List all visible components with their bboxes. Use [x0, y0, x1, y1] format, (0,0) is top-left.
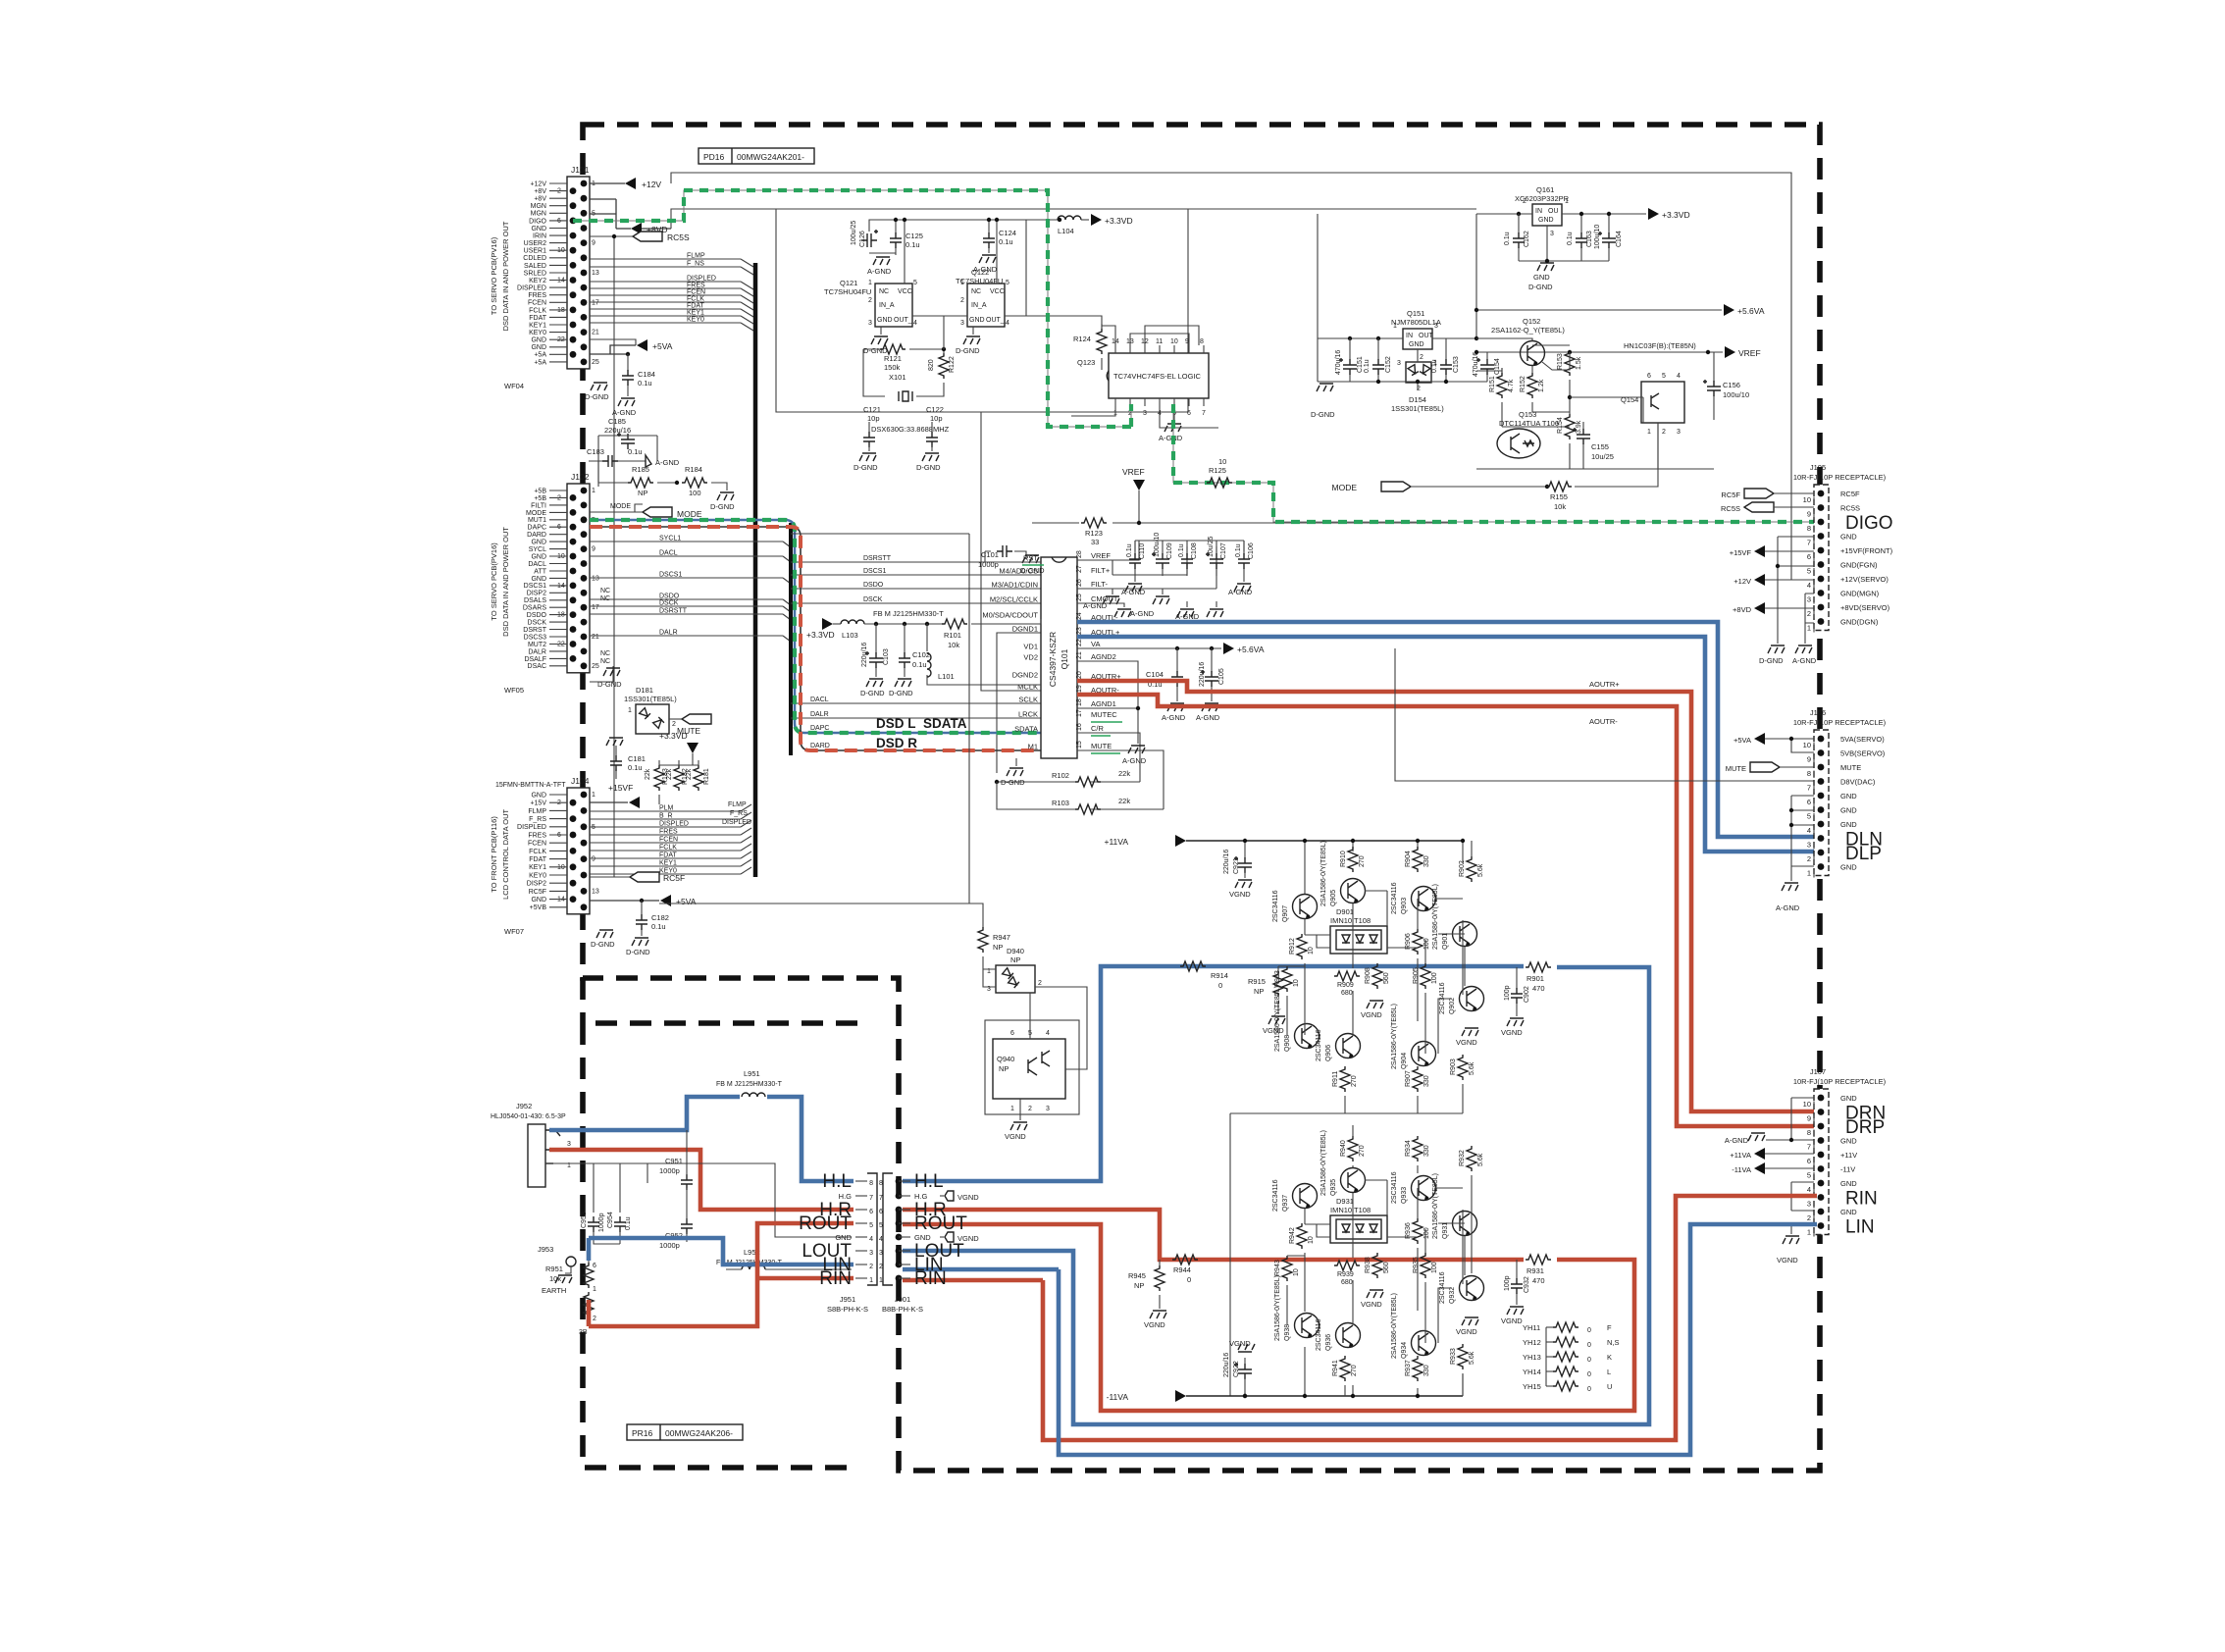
- svg-text:2SC34116: 2SC34116: [1316, 1318, 1322, 1351]
- svg-text:4: 4: [869, 1236, 873, 1243]
- svg-text:25: 25: [592, 663, 599, 670]
- svg-text:GND: GND: [531, 553, 546, 560]
- svg-text:+5VB: +5VB: [530, 904, 547, 911]
- svg-text:1: 1: [1807, 1228, 1811, 1237]
- svg-text:D-GND: D-GND: [1001, 778, 1025, 787]
- svg-text:C181: C181: [628, 754, 646, 763]
- svg-text:Q153: Q153: [1519, 410, 1536, 419]
- svg-text:13: 13: [592, 575, 599, 582]
- svg-text:FRES: FRES: [528, 292, 546, 299]
- svg-text:00MWG24AK206-: 00MWG24AK206-: [665, 1428, 733, 1438]
- svg-text:5: 5: [1807, 1171, 1811, 1180]
- svg-text:FB M J2125HM330-T: FB M J2125HM330-T: [873, 609, 944, 618]
- svg-text:C151: C151: [1357, 356, 1364, 373]
- svg-text:0.1u: 0.1u: [638, 379, 652, 387]
- wire H.R red from jack: [549, 1150, 854, 1210]
- svg-text:10p: 10p: [930, 414, 943, 423]
- svg-text:DSRSTT: DSRSTT: [863, 555, 892, 562]
- svg-text:10: 10: [1803, 495, 1811, 504]
- svg-text:10R-FJ(10P RECEPTACLE): 10R-FJ(10P RECEPTACLE): [1793, 473, 1887, 482]
- svg-text:3B: 3B: [579, 1329, 588, 1336]
- inverter Q121 TC7SHU04FU: [824, 279, 917, 327]
- capacitor C124 0.1u: [973, 218, 1016, 274]
- svg-text:J107: J107: [1810, 1067, 1826, 1076]
- capacitor C108 0.1u: [1178, 541, 1198, 576]
- wire H.L/LOUT blue loop: [903, 966, 1649, 1424]
- svg-text:FDAT: FDAT: [659, 852, 677, 859]
- resistor R155 10k: [1546, 482, 1572, 511]
- svg-text:2: 2: [1038, 980, 1042, 987]
- svg-text:R122: R122: [949, 356, 956, 373]
- svg-text:270: 270: [1351, 1365, 1358, 1376]
- svg-text:D-GND: D-GND: [626, 948, 650, 956]
- svg-text:KEY0: KEY0: [529, 872, 546, 879]
- svg-text:Q906: Q906: [1325, 1045, 1332, 1061]
- capacitor C184: [612, 354, 655, 417]
- svg-text:560: 560: [1383, 972, 1390, 984]
- svg-text:DGND1: DGND1: [1012, 625, 1038, 634]
- svg-text:IN_A: IN_A: [971, 302, 987, 309]
- svg-text:0: 0: [1587, 1386, 1591, 1393]
- svg-text:-11V: -11V: [1840, 1165, 1855, 1174]
- ferrite L951: [716, 1069, 783, 1097]
- svg-text:KEY1: KEY1: [687, 310, 704, 317]
- svg-text:R125: R125: [1209, 466, 1226, 475]
- svg-text:NC: NC: [600, 658, 610, 665]
- svg-text:GND: GND: [531, 226, 546, 232]
- svg-text:C102: C102: [912, 650, 930, 659]
- wire H.R/ROUT red loop: [903, 1210, 1634, 1411]
- svg-text:B8B-PH-K-S: B8B-PH-K-S: [882, 1305, 923, 1314]
- svg-text:+5.6VA: +5.6VA: [1737, 306, 1765, 316]
- svg-text:DISPLED: DISPLED: [722, 819, 751, 826]
- svg-text:F_NS: F_NS: [687, 261, 704, 268]
- svg-text:0.1u: 0.1u: [1126, 543, 1133, 557]
- svg-text:Q902: Q902: [1449, 998, 1456, 1014]
- svg-text:AOUTR+: AOUTR+: [1589, 680, 1620, 689]
- AGND2/AGND1 wires: [1077, 661, 1138, 744]
- svg-text:+8V: +8V: [534, 196, 546, 203]
- svg-text:0.1u: 0.1u: [625, 1216, 632, 1230]
- svg-text:M2/SCL/CCLK: M2/SCL/CCLK: [990, 595, 1038, 604]
- regulator Q151 NJM7805DL1A: [1391, 309, 1441, 361]
- svg-text:6: 6: [869, 1209, 873, 1215]
- svg-text:M0/SDA/CDOUT: M0/SDA/CDOUT: [982, 611, 1038, 620]
- svg-text:WF04: WF04: [504, 382, 524, 390]
- svg-text:MUT1: MUT1: [528, 517, 546, 524]
- svg-text:FCLK: FCLK: [659, 845, 677, 852]
- svg-text:5.6k: 5.6k: [1477, 1153, 1484, 1166]
- resistor R153 1.5k: [1557, 350, 1582, 397]
- wire AOUTL- blue: [1077, 622, 1817, 837]
- svg-text:DSRSTT: DSRSTT: [659, 608, 688, 615]
- capacitor C154 470u/16: [1473, 352, 1501, 382]
- svg-text:GND: GND: [1533, 273, 1550, 282]
- svg-text:F_RS: F_RS: [730, 810, 748, 817]
- svg-text:GND: GND: [1840, 792, 1857, 800]
- svg-text:MGN: MGN: [531, 211, 546, 218]
- svg-text:5.6k: 5.6k: [1469, 1351, 1475, 1365]
- svg-text:Q907: Q907: [1282, 905, 1289, 922]
- svg-text:C922: C922: [1233, 1361, 1240, 1377]
- MODE flag right section: [1332, 423, 1659, 492]
- svg-text:0: 0: [1187, 1275, 1191, 1284]
- svg-text:100: 100: [1431, 972, 1438, 984]
- connector J105: [1793, 463, 1893, 633]
- +12V power arrow: [590, 178, 661, 189]
- capacitor C181 0.1u: [606, 738, 646, 779]
- volume wires blue: [589, 1238, 854, 1265]
- svg-text:J106: J106: [1810, 708, 1826, 717]
- svg-text:VGND: VGND: [1005, 1132, 1026, 1141]
- svg-text:3: 3: [1397, 360, 1401, 367]
- svg-text:+15VF: +15VF: [1730, 548, 1752, 557]
- svg-text:10: 10: [1308, 1236, 1315, 1244]
- svg-text:4: 4: [1677, 373, 1681, 380]
- svg-text:DAPC: DAPC: [810, 725, 829, 732]
- svg-text:RC5F: RC5F: [1721, 490, 1740, 499]
- resistor R908 560: [1365, 963, 1390, 989]
- svg-text:4: 4: [1807, 1185, 1811, 1194]
- svg-text:YH12: YH12: [1523, 1338, 1541, 1347]
- svg-text:FCEN: FCEN: [528, 841, 546, 848]
- svg-text:DISPLED: DISPLED: [687, 276, 716, 283]
- svg-text:MCLK: MCLK: [1017, 683, 1038, 692]
- svg-text:D940: D940: [1007, 947, 1024, 955]
- svg-text:C124: C124: [999, 229, 1016, 237]
- J102 signal wires: [590, 536, 791, 666]
- svg-text:4: 4: [1807, 581, 1811, 590]
- svg-text:100u/25: 100u/25: [851, 221, 857, 245]
- resistor R912 10: [1289, 934, 1315, 959]
- svg-text:NC: NC: [600, 595, 610, 602]
- svg-text:2: 2: [1662, 429, 1666, 436]
- svg-text:WF05: WF05: [504, 686, 524, 695]
- resistor R933 5.6k: [1450, 1344, 1475, 1369]
- svg-text:1000p: 1000p: [598, 1213, 605, 1232]
- svg-text:LIN: LIN: [1845, 1217, 1875, 1238]
- svg-text:GND: GND: [531, 897, 546, 903]
- wire LIN blue: [1059, 1224, 1817, 1455]
- svg-text:C125: C125: [906, 232, 923, 240]
- capacitor C953 1000p: [581, 1212, 620, 1244]
- wire DAPC (blue+green dashed SDATA): [590, 520, 1041, 733]
- svg-text:L103: L103: [842, 631, 858, 640]
- resistor R941 270: [1332, 1356, 1358, 1381]
- svg-text:3: 3: [1046, 1106, 1050, 1112]
- svg-text:NC: NC: [600, 650, 610, 657]
- resistor R940 270: [1340, 1136, 1366, 1162]
- svg-text:GND: GND: [531, 576, 546, 583]
- DAC IC Q101 CS4397-KSZR: [1041, 557, 1077, 758]
- svg-text:9: 9: [1807, 755, 1811, 764]
- resistor R937 330: [1405, 1356, 1430, 1381]
- svg-text:LCD CONTROL DATA OUT: LCD CONTROL DATA OUT: [501, 809, 510, 900]
- svg-text:VGND: VGND: [1361, 1010, 1382, 1019]
- volume wires red: [589, 1223, 854, 1326]
- svg-text:C902: C902: [1524, 986, 1530, 1003]
- svg-text:R938: R938: [1365, 1257, 1371, 1273]
- svg-text:1.5k: 1.5k: [1576, 356, 1582, 370]
- svg-text:CDLED: CDLED: [523, 255, 546, 262]
- svg-text:3: 3: [1434, 323, 1438, 330]
- svg-text:5: 5: [913, 280, 917, 286]
- svg-text:13: 13: [592, 888, 599, 895]
- J104 signal wires into bus: [590, 801, 751, 875]
- svg-text:100u/10: 100u/10: [1594, 225, 1601, 249]
- resistor R944 0 on red: [1172, 1255, 1198, 1284]
- svg-text:C110: C110: [1139, 543, 1146, 559]
- resistor R124: [1073, 324, 1107, 370]
- svg-text:EARTH: EARTH: [542, 1286, 566, 1295]
- svg-text:2SC34116: 2SC34116: [1391, 882, 1398, 914]
- svg-text:100: 100: [1431, 1262, 1438, 1273]
- svg-text:22k: 22k: [1118, 769, 1130, 778]
- svg-text:DACL: DACL: [659, 550, 678, 557]
- svg-text:FILTI: FILTI: [531, 502, 546, 509]
- svg-text:1SS301(TE85L): 1SS301(TE85L): [1391, 404, 1444, 413]
- svg-text:Q905: Q905: [1330, 890, 1337, 906]
- svg-text:DISPLED: DISPLED: [517, 824, 546, 831]
- svg-text:3: 3: [960, 320, 964, 327]
- svg-text:+8VD(SERVO): +8VD(SERVO): [1840, 603, 1890, 612]
- connector J101: [490, 165, 599, 390]
- capacitor C109 100u/10: [1152, 533, 1173, 576]
- resistor R901 470 on blue: [1526, 962, 1551, 993]
- svg-text:C184: C184: [638, 370, 655, 379]
- capacitor C954 0.1u: [607, 1212, 632, 1244]
- svg-text:RC5F: RC5F: [663, 873, 685, 883]
- svg-text:0: 0: [1587, 1371, 1591, 1378]
- svg-text:NP: NP: [638, 489, 647, 497]
- svg-text:25: 25: [592, 359, 599, 366]
- VGND under J107: [1777, 1236, 1799, 1265]
- svg-text:MUTE: MUTE: [1726, 764, 1746, 773]
- resistor R151 4.7k: [1489, 368, 1515, 427]
- svg-text:R933: R933: [1450, 1348, 1457, 1365]
- svg-text:Q123: Q123: [1077, 358, 1095, 367]
- resistor R906 100: [1405, 929, 1430, 955]
- transistor Q152 2SA1162: [1491, 317, 1565, 366]
- svg-text:2: 2: [868, 297, 872, 304]
- svg-text:NC: NC: [600, 588, 610, 594]
- svg-text:YH13: YH13: [1523, 1353, 1541, 1362]
- +11VA arrow J107: [1730, 1148, 1814, 1160]
- ferrite L103 +3.3VD: [806, 609, 944, 640]
- svg-text:VGND: VGND: [1777, 1256, 1798, 1265]
- svg-text:15: 15: [1076, 741, 1083, 749]
- svg-text:R939: R939: [1337, 1271, 1354, 1278]
- +3.3VD output arrow: [1562, 208, 1690, 220]
- capacitor C122 gnd: [916, 422, 941, 472]
- connector J102: [490, 472, 599, 695]
- capacitor C156 100u/10: [1703, 352, 1749, 420]
- svg-text:0.1u: 0.1u: [906, 240, 920, 249]
- svg-text:SCLK: SCLK: [1018, 696, 1038, 704]
- svg-text:DSD DATA IN AND POWER OUT: DSD DATA IN AND POWER OUT: [501, 221, 510, 331]
- svg-text:2SC34116: 2SC34116: [1272, 1179, 1279, 1212]
- svg-text:FRES: FRES: [528, 832, 546, 839]
- svg-text:R951: R951: [545, 1265, 563, 1273]
- svg-text:100u/10: 100u/10: [1154, 533, 1161, 557]
- svg-text:+5.6VA: +5.6VA: [1237, 645, 1265, 654]
- svg-text:TC7SHU04FU: TC7SHU04FU: [824, 287, 871, 296]
- resistor R910 270: [1340, 847, 1366, 872]
- svg-text:8: 8: [869, 1180, 873, 1187]
- svg-text:3: 3: [1550, 231, 1554, 237]
- svg-text:TO SERVO PCB(PV16): TO SERVO PCB(PV16): [490, 542, 498, 621]
- svg-text:9: 9: [592, 240, 595, 247]
- capacitor C932 100p: [1501, 1260, 1530, 1325]
- Q161 ground: [1519, 226, 1609, 291]
- svg-text:100: 100: [1423, 938, 1430, 950]
- svg-text:DSAC: DSAC: [528, 663, 546, 670]
- svg-text:Q154: Q154: [1621, 395, 1638, 404]
- svg-text:DACL: DACL: [810, 697, 829, 703]
- D-GND A-GND under J105: [1759, 645, 1817, 665]
- svg-text:R123: R123: [1085, 529, 1103, 538]
- connector J951: [799, 1171, 883, 1314]
- svg-text:DISP2: DISP2: [527, 881, 546, 888]
- svg-text:GND: GND: [1840, 1179, 1857, 1188]
- svg-text:1: 1: [869, 1277, 873, 1284]
- svg-text:1: 1: [868, 280, 872, 286]
- capacitor C125 0.1u: [867, 218, 923, 276]
- transistor Q901 2SA1586-0/Y(TE85L): [1432, 884, 1477, 950]
- svg-text:2SC34116: 2SC34116: [1272, 890, 1279, 922]
- svg-text:FDAT: FDAT: [687, 303, 704, 310]
- VCC wires to inverters: [905, 220, 997, 284]
- headphone board dashed border PR16: [583, 1023, 857, 1468]
- svg-text:10: 10: [1218, 457, 1226, 466]
- svg-text:DALR: DALR: [659, 630, 678, 637]
- jack sleeve wire: [545, 1163, 852, 1237]
- svg-text:MUTE: MUTE: [677, 726, 700, 736]
- svg-text:GND: GND: [531, 337, 546, 344]
- svg-text:NP: NP: [1134, 1281, 1144, 1290]
- svg-text:A-GND: A-GND: [655, 458, 680, 467]
- IC left pin labels: [982, 554, 1038, 751]
- svg-text:1: 1: [592, 488, 595, 494]
- wire pullup tops: [659, 760, 699, 765]
- jumper resistors YH11-YH15: [1523, 1322, 1620, 1393]
- svg-text:MGN: MGN: [531, 203, 546, 210]
- svg-text:VREF: VREF: [1091, 551, 1111, 560]
- svg-text:OUT_: OUT_: [986, 317, 1005, 324]
- svg-text:OU: OU: [1548, 208, 1559, 215]
- svg-text:RIN: RIN: [819, 1268, 852, 1289]
- svg-text:FILT-: FILT-: [1091, 580, 1108, 589]
- svg-text:16: 16: [1076, 723, 1083, 731]
- svg-text:24: 24: [1076, 612, 1083, 620]
- svg-text:FCLK: FCLK: [687, 296, 704, 303]
- svg-text:HN1C03F(B):(TE85N): HN1C03F(B):(TE85N): [1624, 341, 1696, 350]
- svg-text:DGND2: DGND2: [1012, 671, 1038, 680]
- svg-text:FDAT: FDAT: [529, 856, 546, 863]
- transistor Q933 2SC34116: [1391, 1171, 1436, 1204]
- svg-text:10u/25: 10u/25: [1208, 536, 1215, 557]
- svg-text:+15VF: +15VF: [608, 783, 633, 793]
- svg-text:220u/16: 220u/16: [1223, 1353, 1230, 1377]
- svg-text:Q935: Q935: [1330, 1179, 1337, 1196]
- resistor R945 NP: [1128, 1260, 1166, 1329]
- resistor R905 100: [1413, 963, 1438, 989]
- svg-text:330: 330: [1423, 855, 1430, 867]
- transistor Q907 2SC34116: [1272, 890, 1318, 922]
- svg-text:J901: J901: [895, 1295, 910, 1304]
- svg-text:VREF: VREF: [1738, 348, 1761, 358]
- svg-text:R908: R908: [1365, 967, 1371, 984]
- svg-text:MODE: MODE: [677, 509, 702, 519]
- svg-text:+8V: +8V: [534, 188, 546, 195]
- svg-text:DSD L SDATA: DSD L SDATA: [876, 716, 967, 731]
- resistor R913 10: [1274, 966, 1300, 992]
- svg-text:4: 4: [1046, 1030, 1050, 1037]
- resistor R152 1.2k: [1520, 366, 1545, 412]
- svg-text:VA: VA: [1091, 640, 1100, 648]
- svg-text:9: 9: [1807, 510, 1811, 519]
- svg-text:2SA1586-0/Y(TE85L): 2SA1586-0/Y(TE85L): [1432, 884, 1439, 950]
- svg-text:AOUTR-: AOUTR-: [1589, 717, 1618, 726]
- clock section outline: [776, 209, 1188, 412]
- lower amp rail verticals: [1305, 1347, 1472, 1396]
- svg-text:DSALS: DSALS: [524, 597, 546, 604]
- svg-text:33: 33: [1091, 538, 1099, 546]
- transistor Q938 2SA1586-0/Y(TE85L): [1274, 1275, 1319, 1341]
- svg-text:3: 3: [1807, 841, 1811, 850]
- capacitor C183 0.1u with A-GND: [587, 436, 680, 487]
- svg-text:R903: R903: [1450, 1058, 1457, 1075]
- svg-text:D-GND: D-GND: [916, 463, 941, 472]
- VGND under Q940: [1005, 1099, 1027, 1141]
- svg-text:10k: 10k: [549, 1274, 561, 1283]
- svg-text:680: 680: [1341, 990, 1353, 997]
- svg-text:VD1: VD1: [1023, 643, 1038, 651]
- capacitor C152 0.1u: [1364, 338, 1392, 382]
- capacitor C101 1000p: [978, 545, 1045, 575]
- svg-text:A-GND: A-GND: [1175, 612, 1200, 621]
- svg-text:K: K: [1607, 1353, 1612, 1362]
- svg-text:VGND: VGND: [1361, 1300, 1382, 1309]
- D-GND under Q122: [956, 327, 980, 355]
- wire AOUTR- red: [1077, 695, 1817, 1126]
- svg-text:KEY1: KEY1: [659, 860, 677, 867]
- svg-text:M1: M1: [1028, 743, 1038, 751]
- +5VA arrow at J104: [590, 895, 697, 906]
- transistor Q908 2SA1586-0/Y(TE85L): [1274, 986, 1319, 1052]
- resistor R101 10k: [942, 619, 1041, 649]
- wire AOUTR+ red: [1077, 681, 1817, 1111]
- +12V arrow J105: [1733, 574, 1814, 586]
- svg-text:ROUT: ROUT: [914, 1213, 967, 1234]
- capacitor C110 0.1u: [1126, 541, 1146, 576]
- svg-text:SALED: SALED: [524, 263, 546, 270]
- svg-text:1SS301(TE85L): 1SS301(TE85L): [624, 695, 677, 703]
- svg-text:FCEN: FCEN: [528, 300, 546, 307]
- svg-text:D154: D154: [1409, 395, 1426, 404]
- capacitor C153 0.1u: [1431, 338, 1460, 382]
- svg-text:DSARS: DSARS: [523, 605, 546, 612]
- svg-text:VGND: VGND: [1229, 1339, 1251, 1348]
- svg-text:R101: R101: [944, 631, 961, 640]
- svg-text:C951: C951: [665, 1157, 683, 1165]
- svg-text:0: 0: [1587, 1357, 1591, 1364]
- svg-text:6: 6: [1807, 1157, 1811, 1165]
- svg-text:NP: NP: [999, 1064, 1009, 1073]
- svg-text:R912: R912: [1289, 938, 1296, 955]
- wire RIN red: [1043, 1196, 1817, 1440]
- svg-text:DLP: DLP: [1845, 844, 1882, 864]
